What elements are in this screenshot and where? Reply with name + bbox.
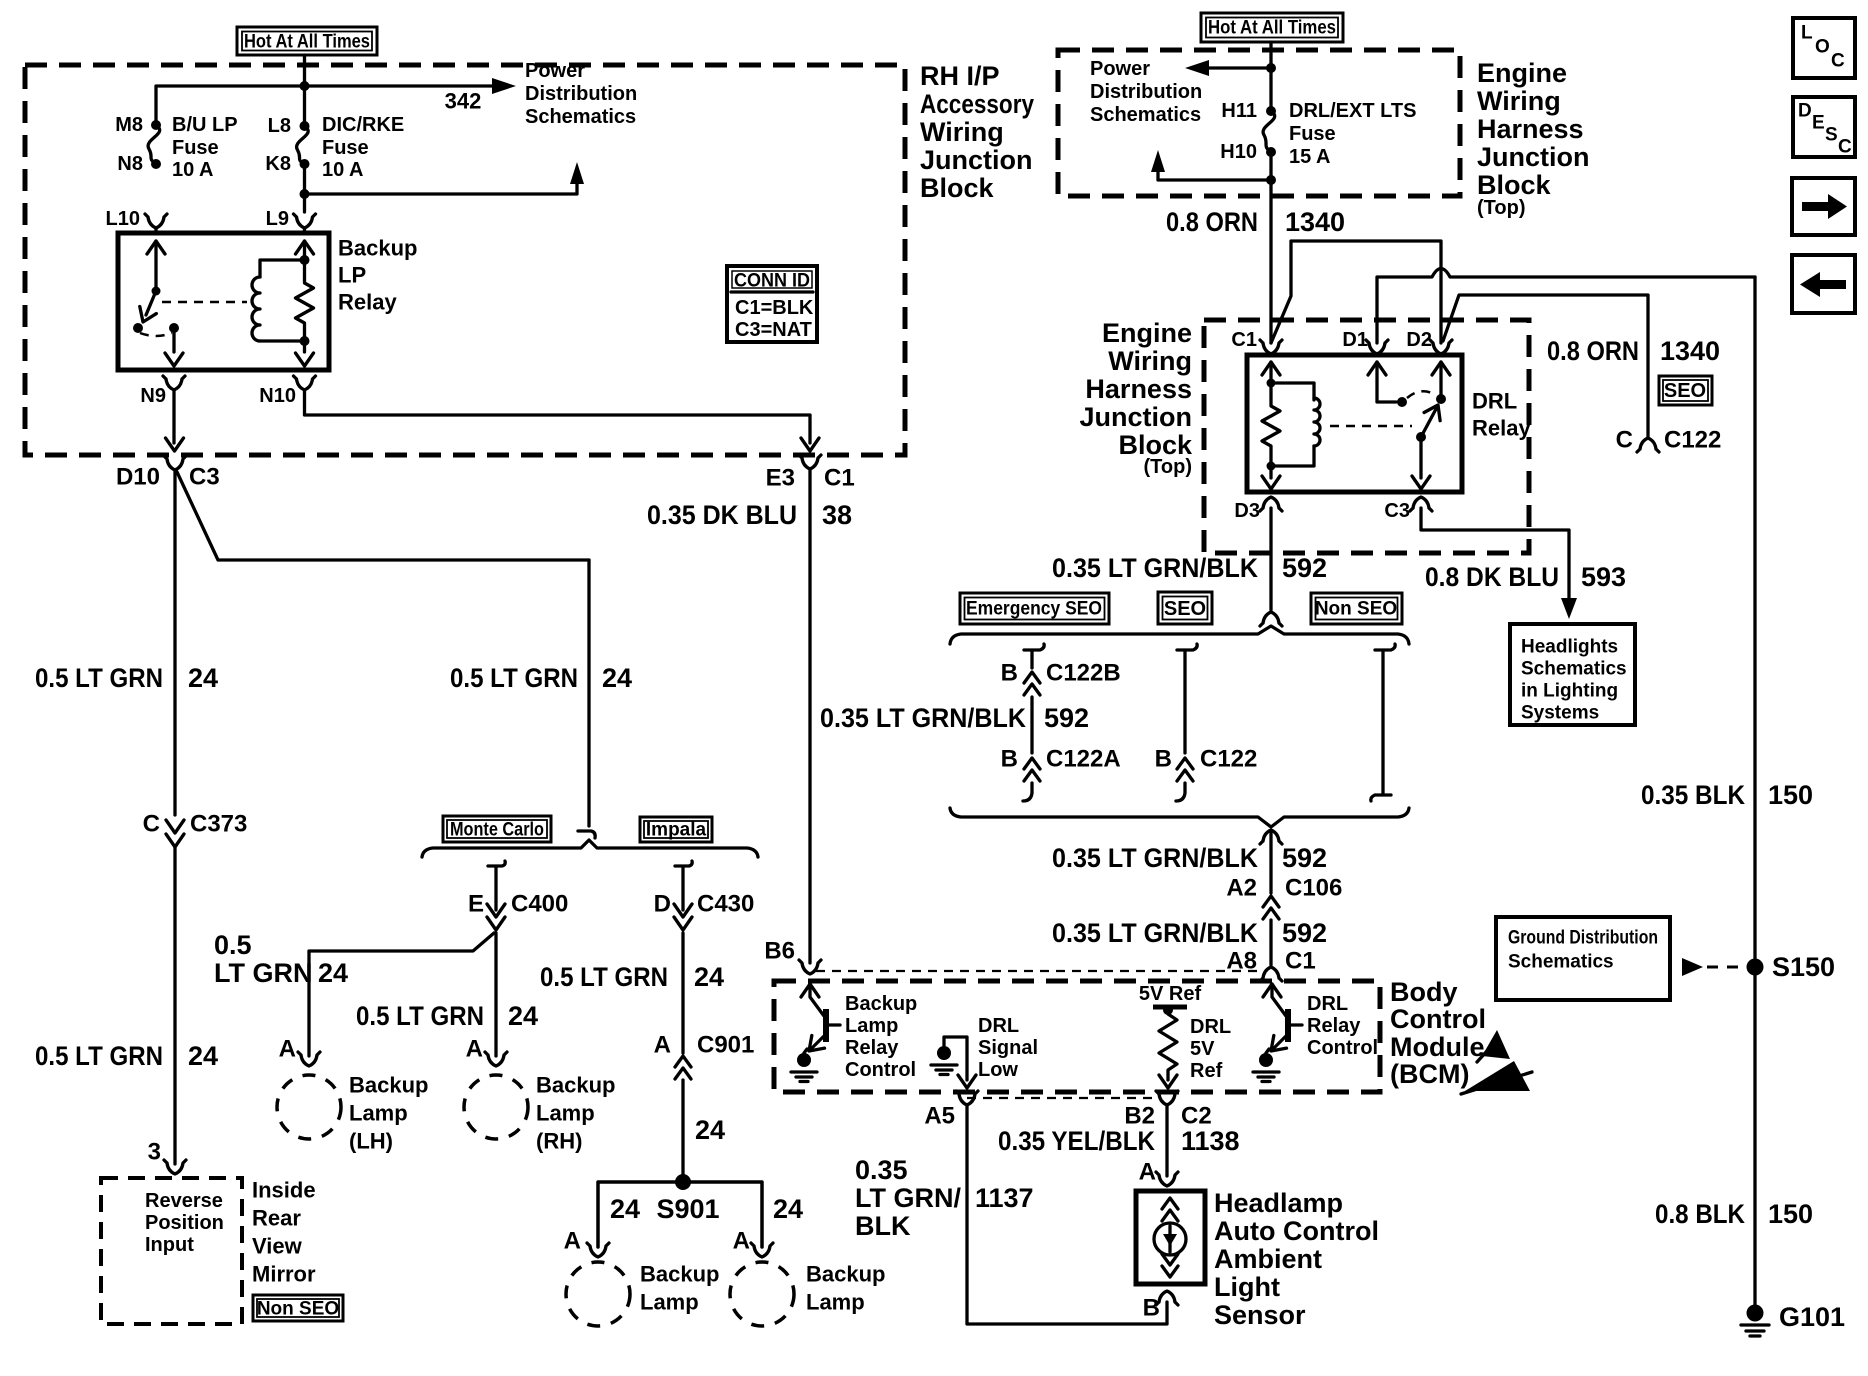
relay K2 resistor (C1-D3)	[1262, 362, 1280, 489]
connector A (light sensor)	[1156, 1172, 1178, 1186]
svg-text:Junction: Junction	[1080, 402, 1193, 432]
label box SEO (right)	[1659, 376, 1712, 405]
label box Hot At All Times (right)	[1201, 13, 1343, 42]
svg-text:24: 24	[508, 1001, 538, 1031]
svg-text:L10: L10	[106, 208, 140, 230]
svg-text:24: 24	[188, 1041, 218, 1071]
svg-text:592: 592	[1282, 553, 1327, 583]
svg-text:Junction: Junction	[920, 145, 1033, 175]
ground DRL Signal Low pull-down	[931, 1046, 957, 1075]
svg-text:Relay: Relay	[1307, 1015, 1361, 1037]
connector end fork (D3 wire end)	[1260, 612, 1282, 626]
svg-text:C122: C122	[1200, 746, 1257, 773]
wire 342 to Power Distribution Schematics (arrow)	[492, 78, 516, 94]
svg-text:B: B	[1001, 660, 1018, 687]
svg-text:Sensor: Sensor	[1214, 1300, 1306, 1330]
svg-text:A: A	[1139, 1159, 1156, 1186]
wire N10 to E3	[305, 390, 811, 443]
label Backup Lamp	[806, 1262, 885, 1315]
relay K1 switch contact (left)	[133, 241, 183, 366]
label 0.35 DK BLU 38	[647, 500, 852, 530]
label 0.5 LT GRN 24 (RH lamp)	[356, 1001, 538, 1031]
wire Monte Carlo branch to C400	[488, 861, 505, 910]
connector fork below brace	[1260, 830, 1282, 844]
svg-text:15 A: 15 A	[1289, 146, 1331, 168]
junction block Engine Wiring Harness Junction Block 2 (dashed box)	[1204, 320, 1529, 553]
svg-text:Fuse: Fuse	[172, 137, 219, 159]
svg-text:L8: L8	[268, 115, 291, 137]
wire from C400 to LH backup lamp	[309, 933, 494, 1056]
svg-text:C122B: C122B	[1046, 660, 1121, 687]
svg-text:K8: K8	[265, 153, 291, 175]
svg-text:Backup: Backup	[536, 1073, 615, 1098]
connector A (backup lamp LH)	[298, 1052, 320, 1066]
label DRL Relay Control	[1307, 993, 1378, 1059]
connector A5	[956, 1091, 978, 1105]
lamp Backup Lamp (Impala RH)	[730, 1262, 794, 1326]
svg-text:Monte Carlo: Monte Carlo	[450, 820, 544, 841]
lamp Backup Lamp (Impala LH)	[566, 1262, 630, 1326]
svg-text:B: B	[1001, 746, 1018, 773]
node junction dot (top)	[1266, 63, 1276, 73]
label 0.5 LT GRN 24 (upper left)	[35, 663, 218, 693]
svg-text:592: 592	[1044, 703, 1089, 733]
wire L10 into relay	[154, 228, 157, 233]
symbol ESD triangle small	[1477, 1030, 1510, 1062]
wire D2 node to C122 (0.8 ORN 1340 SEO)	[1443, 295, 1648, 438]
wire 0.5 LT GRN 24 from D10 down to C373	[173, 470, 176, 815]
svg-text:Control: Control	[1307, 1037, 1378, 1059]
label Reverse Position Input	[145, 1190, 224, 1256]
svg-text:Control: Control	[1390, 1004, 1486, 1034]
svg-text:Non SEO: Non SEO	[1315, 599, 1397, 620]
svg-text:24: 24	[694, 962, 724, 992]
svg-text:D2: D2	[1406, 329, 1432, 351]
svg-text:E: E	[468, 891, 484, 918]
wire feed from Hot box through junction block	[1269, 42, 1272, 111]
svg-text:0.35 DK BLU: 0.35 DK BLU	[647, 500, 797, 530]
svg-text:150: 150	[1768, 1199, 1813, 1229]
svg-text:Junction: Junction	[1477, 142, 1590, 172]
wire branch to fuses and 342 arrow	[156, 86, 492, 125]
svg-text:B: B	[1155, 746, 1172, 773]
module Body Control Module (dashed box)	[774, 981, 1380, 1092]
connector D2 (DRL relay)	[1430, 340, 1452, 354]
wire branch Emergency SEO	[1024, 644, 1044, 668]
transistor Q2 DRL Relay Control	[1263, 984, 1302, 1057]
connector B / C122A	[1024, 758, 1040, 781]
svg-text:DRL: DRL	[978, 1015, 1019, 1037]
svg-text:Backup: Backup	[349, 1073, 428, 1098]
svg-text:Lamp: Lamp	[845, 1015, 898, 1037]
svg-text:24: 24	[188, 663, 218, 693]
svg-text:D10: D10	[116, 464, 160, 491]
svg-text:Lamp: Lamp	[640, 1290, 699, 1315]
relay K2 coil	[1271, 383, 1320, 466]
label 0.35 LT GRN/ BLK 1137	[855, 1155, 1034, 1241]
relay K1 resistor	[296, 260, 314, 341]
svg-text:0.35 BLK: 0.35 BLK	[1641, 780, 1745, 810]
wire arrow left to Power Distribution Schematics	[1207, 66, 1271, 69]
svg-text:Schematics: Schematics	[1508, 952, 1614, 973]
connector face line (BCM top, thin dashed)	[816, 970, 1264, 972]
svg-text:0.8 ORN: 0.8 ORN	[1547, 336, 1639, 366]
nav icon arrow left	[1792, 255, 1855, 313]
svg-text:Relay: Relay	[1472, 416, 1531, 441]
svg-text:0.35 LT GRN/BLK: 0.35 LT GRN/BLK	[1052, 553, 1258, 583]
svg-text:Relay: Relay	[338, 290, 397, 315]
svg-text:0.35 LT GRN/BLK: 0.35 LT GRN/BLK	[1052, 918, 1258, 948]
svg-text:1340: 1340	[1660, 336, 1720, 366]
label 0.35 YEL/BLK 1138	[998, 1126, 1240, 1156]
fuse DRL/EXT LTS Fuse 15 A (H11-H10)	[1263, 106, 1276, 157]
svg-text:(Top): (Top)	[1477, 197, 1526, 219]
brace split Monte Carlo / Impala	[422, 840, 758, 857]
svg-text:Backup: Backup	[845, 993, 917, 1015]
svg-text:Fuse: Fuse	[322, 137, 369, 159]
svg-text:Accessory: Accessory	[920, 89, 1034, 119]
nav icon arrow right	[1792, 178, 1855, 235]
label box CONN ID (C1=BLK C3=NAT)	[727, 266, 817, 342]
svg-text:L: L	[1801, 23, 1813, 44]
node junction dot at feed	[300, 81, 310, 91]
wire from C400 to RH backup lamp	[494, 933, 497, 1056]
svg-text:Inside: Inside	[252, 1178, 316, 1203]
wire end tick above brace	[578, 831, 595, 838]
svg-text:DRL/EXT LTS: DRL/EXT LTS	[1289, 100, 1416, 122]
wire DRL Signal Low to A5	[944, 1037, 967, 1080]
node junction dot lower	[1266, 175, 1276, 185]
svg-text:O: O	[1815, 37, 1830, 58]
svg-text:S: S	[1825, 125, 1838, 146]
connector A / C901	[675, 1056, 691, 1079]
svg-text:Reverse: Reverse	[145, 1190, 223, 1212]
svg-text:A5: A5	[924, 1103, 955, 1130]
label DRL 5V Ref	[1190, 1016, 1231, 1082]
svg-text:Engine: Engine	[1477, 58, 1567, 88]
wire 0.5 LT GRN 24 from C430 to C901	[681, 933, 684, 1053]
connector E3 / C1	[799, 455, 821, 469]
svg-text:Backup: Backup	[806, 1262, 885, 1287]
svg-text:A: A	[564, 1228, 581, 1255]
connector L9	[294, 214, 316, 228]
svg-text:(Top): (Top)	[1144, 456, 1193, 478]
ground (Q2 emitter)	[1253, 1053, 1279, 1082]
svg-text:592: 592	[1282, 918, 1327, 948]
label Backup Lamp Relay Control	[845, 993, 917, 1081]
svg-text:Mirror: Mirror	[252, 1262, 316, 1287]
connector B / C122B	[1024, 672, 1040, 695]
svg-text:0.8 ORN: 0.8 ORN	[1166, 207, 1258, 237]
relay K2 DRL Relay (box)	[1247, 355, 1462, 492]
svg-text:M8: M8	[115, 114, 143, 136]
svg-text:38: 38	[822, 500, 852, 530]
svg-text:24: 24	[695, 1115, 725, 1145]
connector N10	[294, 376, 316, 390]
reference box Ground Distribution Schematics	[1496, 917, 1670, 1000]
svg-text:A: A	[733, 1228, 750, 1255]
svg-text:C901: C901	[697, 1032, 754, 1059]
svg-text:in Lighting: in Lighting	[1521, 681, 1618, 702]
label 0.35 LT GRN/BLK 592 (above A8)	[1052, 918, 1327, 948]
connector A8 / C1	[1260, 967, 1282, 981]
svg-text:N9: N9	[140, 385, 166, 407]
svg-text:S901: S901	[656, 1194, 719, 1224]
fuse DIC/RKE Fuse 10 A (L8-K8)	[297, 121, 310, 169]
svg-text:Distribution: Distribution	[1090, 81, 1202, 103]
svg-text:Signal: Signal	[978, 1037, 1038, 1059]
relay K2 linkage (dashed)	[1330, 425, 1412, 428]
label 0.8 ORN 1340 (SEO branch)	[1547, 336, 1720, 366]
label DRL Signal Low	[978, 1015, 1038, 1081]
wire branch diagonal from D10 to RH backup lamp feed	[177, 472, 589, 560]
relay K2 switch (D1-D2-C3)	[1368, 362, 1450, 489]
connector A (backup lamp 4)	[751, 1243, 773, 1257]
svg-text:(BCM): (BCM)	[1390, 1059, 1469, 1089]
wire D3 down to SEO split	[1269, 508, 1272, 610]
label box Non SEO (mirror)	[253, 1295, 343, 1321]
connector A (backup lamp 3)	[587, 1243, 609, 1257]
ground (Q1 emitter)	[791, 1053, 817, 1082]
svg-text:A: A	[654, 1032, 671, 1059]
svg-text:Ref: Ref	[1190, 1060, 1223, 1082]
connector B / C122	[1177, 758, 1193, 781]
junction block Engine Wiring Harness Junction Block top (dashed box)	[1058, 50, 1460, 196]
svg-text:SEO: SEO	[1164, 598, 1206, 620]
svg-text:Auto Control: Auto Control	[1214, 1216, 1379, 1246]
svg-text:0.8 BLK: 0.8 BLK	[1655, 1199, 1745, 1229]
symbol ESD triangle large	[1461, 1061, 1532, 1094]
label DRL Relay	[1472, 389, 1531, 441]
wire dashed link to S150 with arrow	[1682, 958, 1744, 976]
svg-text:Emergency SEO: Emergency SEO	[966, 599, 1102, 620]
relay K1 terminal arrows	[296, 241, 314, 366]
svg-text:Low: Low	[978, 1059, 1018, 1081]
nav icon LOC	[1793, 18, 1855, 78]
svg-text:Wiring: Wiring	[1477, 86, 1561, 116]
svg-text:Schematics: Schematics	[1090, 104, 1201, 126]
svg-text:0.5 LT GRN: 0.5 LT GRN	[35, 1041, 163, 1071]
connector L10	[145, 214, 167, 228]
wire 0.5 LT GRN 24 down to Monte Carlo / Impala brace	[587, 560, 590, 826]
label Backup Lamp (RH)	[536, 1073, 615, 1154]
svg-text:Block: Block	[920, 173, 995, 203]
label Backup Lamp (LH)	[349, 1073, 428, 1154]
connector face line (BCM bottom, thin dashed)	[967, 1097, 1160, 1099]
connector A2 / C106	[1263, 896, 1279, 919]
label 0.8 DK BLU 593	[1425, 562, 1626, 592]
wire 0.35 LT GRN/BLK 592 to C106	[1269, 832, 1272, 893]
nav icon DESC	[1793, 97, 1855, 158]
wire 0.35 DK BLU 38 from E3/C1 to B6	[808, 469, 811, 963]
svg-text:Ground Distribution: Ground Distribution	[1508, 928, 1658, 949]
wire splice bar and drops	[598, 1182, 762, 1247]
svg-text:C122: C122	[1664, 427, 1721, 454]
svg-text:592: 592	[1282, 843, 1327, 873]
brace split SEO options (top)	[950, 626, 1409, 644]
svg-text:Schematics: Schematics	[525, 106, 636, 128]
svg-text:D: D	[1798, 101, 1812, 122]
label Body Control Module (BCM)	[1390, 977, 1486, 1089]
svg-text:Lamp: Lamp	[349, 1101, 408, 1126]
svg-text:Harness: Harness	[1085, 374, 1192, 404]
relay K1 linkage (dashed)	[162, 301, 247, 304]
wire branch SEO	[1177, 644, 1197, 753]
svg-text:C1: C1	[1231, 329, 1257, 351]
svg-text:C3: C3	[1384, 500, 1410, 522]
svg-text:C: C	[1831, 51, 1845, 72]
svg-text:A: A	[466, 1036, 483, 1063]
label 0.35 BLK 150	[1641, 780, 1813, 810]
supply 5V Ref bar	[1139, 983, 1202, 1015]
wire feed from Hot At All Times into block	[303, 55, 306, 126]
svg-text:DRL: DRL	[1190, 1016, 1231, 1038]
svg-text:C: C	[143, 811, 160, 838]
label 0.35 LT GRN/BLK 592 (emergency branch)	[820, 703, 1089, 733]
svg-text:24: 24	[610, 1194, 640, 1224]
svg-text:A: A	[279, 1036, 296, 1063]
svg-text:Wiring: Wiring	[920, 117, 1004, 147]
svg-text:0.35 YEL/BLK: 0.35 YEL/BLK	[998, 1126, 1155, 1156]
svg-text:C106: C106	[1285, 875, 1342, 902]
label DIC/RKE Fuse 10 A	[322, 114, 404, 181]
wire tail with hook (emergency branch)	[1023, 783, 1032, 801]
svg-text:Backup: Backup	[640, 1262, 719, 1287]
svg-text:0.5 LT GRN: 0.5 LT GRN	[35, 663, 163, 693]
svg-text:SEO: SEO	[1664, 380, 1706, 402]
svg-text:BLK: BLK	[855, 1211, 911, 1241]
svg-text:C3: C3	[189, 464, 220, 491]
svg-text:E3: E3	[766, 465, 795, 492]
svg-text:L9: L9	[266, 208, 289, 230]
label 0.5 LT GRN 24 (LH lamp)	[214, 930, 348, 988]
label 0.35 LT GRN/BLK 592 (above C106)	[1052, 843, 1327, 873]
svg-text:H11: H11	[1221, 100, 1257, 122]
transistor Q1 Backup Lamp Relay Control	[801, 984, 840, 1057]
wire 0.35 LT GRN/BLK 592 to A8/C1	[1269, 920, 1272, 965]
svg-text:LP: LP	[338, 263, 366, 288]
wire 0.35 LT GRN/BLK 592 between C122B and C122A	[1030, 697, 1033, 753]
svg-text:C3=NAT: C3=NAT	[735, 319, 812, 341]
svg-text:D1: D1	[1342, 329, 1368, 351]
svg-text:3: 3	[148, 1139, 161, 1166]
svg-text:Headlights: Headlights	[1521, 637, 1618, 658]
svg-text:H10: H10	[1220, 141, 1257, 163]
label RH I/P Accessory Wiring Junction Block	[920, 61, 1034, 203]
connector B (light sensor)	[1156, 1291, 1178, 1305]
svg-text:Fuse: Fuse	[1289, 123, 1336, 145]
label 0.5 LT GRN 24 (Impala)	[540, 962, 724, 992]
svg-text:0.35 LT GRN/BLK: 0.35 LT GRN/BLK	[1052, 843, 1258, 873]
connector B6	[799, 960, 821, 974]
svg-text:Block: Block	[1477, 170, 1552, 200]
svg-text:10 A: 10 A	[322, 159, 364, 181]
label 0.8 ORN 1340 (vertical feed)	[1166, 207, 1345, 237]
svg-text:1138: 1138	[1181, 1126, 1240, 1156]
wire D1 to ground rail (hops over D2 wire)	[1377, 269, 1755, 344]
svg-text:Ambient: Ambient	[1214, 1244, 1322, 1274]
label Backup LP Relay	[338, 236, 417, 315]
svg-text:0.35 LT GRN/BLK: 0.35 LT GRN/BLK	[820, 703, 1026, 733]
connector pin 3 (mirror)	[164, 1160, 186, 1174]
wire branch Non SEO	[1371, 644, 1395, 801]
svg-text:Light: Light	[1214, 1272, 1280, 1302]
svg-text:Headlamp: Headlamp	[1214, 1188, 1343, 1218]
wire 0.35 LT GRN/BLK 1137 from A5 to sensor B	[967, 1105, 1167, 1324]
svg-text:C: C	[1838, 137, 1852, 158]
splice S901	[675, 1174, 691, 1190]
svg-text:24: 24	[773, 1194, 803, 1224]
label 0.5 LT GRN 24 (center)	[450, 663, 632, 693]
svg-text:CONN ID: CONN ID	[734, 271, 810, 292]
wire Impala branch to C430	[675, 861, 692, 910]
wire branch to up-arrow (power distribution)	[305, 172, 578, 194]
svg-text:Non SEO: Non SEO	[257, 1299, 339, 1320]
svg-text:Harness: Harness	[1477, 114, 1584, 144]
svg-text:B6: B6	[764, 938, 795, 965]
connector C3 (DRL relay out)	[1410, 497, 1432, 511]
svg-text:E: E	[1812, 113, 1825, 134]
svg-text:B: B	[1143, 1295, 1160, 1322]
label Backup Lamp	[640, 1262, 719, 1315]
wire tail with hook (SEO branch)	[1176, 783, 1185, 801]
svg-text:0.5 LT GRN: 0.5 LT GRN	[450, 663, 578, 693]
svg-text:(LH): (LH)	[349, 1129, 393, 1154]
svg-text:D3: D3	[1234, 500, 1260, 522]
svg-text:(RH): (RH)	[536, 1129, 582, 1154]
connector D / C430	[674, 904, 692, 930]
wire H10 down with branch arrow up	[1269, 152, 1272, 343]
svg-text:0.35: 0.35	[855, 1155, 908, 1185]
label box Non SEO (middle)	[1311, 593, 1402, 624]
svg-text:24: 24	[318, 958, 348, 988]
svg-text:A2: A2	[1226, 875, 1257, 902]
connector D3	[1260, 497, 1282, 511]
svg-text:C1: C1	[1285, 948, 1316, 975]
label Power Distribution Schematics (right)	[1090, 58, 1202, 126]
svg-text:C1: C1	[824, 465, 855, 492]
svg-text:Input: Input	[145, 1234, 194, 1256]
svg-text:B/U LP: B/U LP	[172, 114, 238, 136]
label Headlamp Auto Control Ambient Light Sensor	[1214, 1188, 1379, 1330]
svg-text:LT GRN: LT GRN	[214, 958, 312, 988]
svg-text:N8: N8	[117, 153, 143, 175]
svg-text:Systems: Systems	[1521, 703, 1599, 724]
svg-text:C400: C400	[511, 891, 568, 918]
connector C / C122	[1637, 438, 1659, 452]
wire from K8 to L9 with branch arrow up	[303, 164, 306, 212]
svg-text:Module: Module	[1390, 1032, 1485, 1062]
label 0.5 LT GRN 24 (lower left)	[35, 1041, 218, 1071]
sensor Headlamp Auto Control Ambient Light Sensor (box)	[1136, 1191, 1205, 1284]
svg-text:DRL: DRL	[1307, 993, 1348, 1015]
svg-text:Rear: Rear	[252, 1206, 301, 1231]
resistor DRL 5V Ref	[1159, 1010, 1177, 1080]
svg-text:Schematics: Schematics	[1521, 659, 1627, 680]
wire 24 from C901 to splice S901	[681, 1080, 684, 1182]
svg-text:C1=BLK: C1=BLK	[735, 297, 814, 319]
wire 0.35 YEL/BLK 1138 from B2 to sensor A	[1165, 1105, 1168, 1176]
svg-text:Engine: Engine	[1102, 318, 1192, 348]
svg-text:Hot At All Times: Hot At All Times	[244, 32, 370, 53]
svg-text:C430: C430	[697, 891, 754, 918]
svg-text:1137: 1137	[975, 1183, 1034, 1213]
svg-text:10 A: 10 A	[172, 159, 214, 181]
svg-text:150: 150	[1768, 780, 1813, 810]
svg-text:Position: Position	[145, 1212, 224, 1234]
svg-text:0.5: 0.5	[214, 930, 252, 960]
svg-text:G101: G101	[1779, 1302, 1845, 1332]
